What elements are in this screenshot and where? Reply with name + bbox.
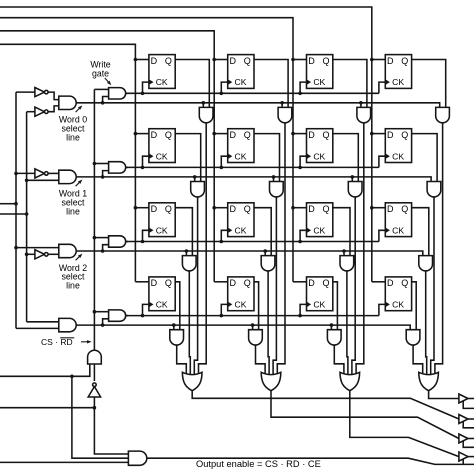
flip-flop FF22 xyxy=(228,129,254,163)
junction xyxy=(141,166,145,170)
wire W2 output xyxy=(126,166,128,168)
and gate word2 xyxy=(59,244,76,257)
wire Q output FF42 xyxy=(254,282,259,330)
svg-text:CK: CK xyxy=(313,300,325,310)
wire select to W1 xyxy=(103,97,109,103)
junction xyxy=(291,58,295,62)
wire select tap row 2 col 2 xyxy=(273,177,275,182)
and gate read R34 xyxy=(419,256,433,271)
svg-text:D: D xyxy=(229,130,236,140)
junction xyxy=(70,375,74,379)
svg-text:gate: gate xyxy=(92,68,109,78)
wire Q output FF33 xyxy=(333,208,350,256)
svg-text:D: D xyxy=(308,204,315,214)
wire D input FF32 xyxy=(214,207,228,209)
flip-flop FF33 xyxy=(307,203,333,237)
svg-text:CK: CK xyxy=(156,77,168,87)
wire select tap row 2 col 1 xyxy=(194,177,196,182)
tri-state buffer B1 xyxy=(459,394,468,403)
junction xyxy=(251,323,255,327)
label Word 1 select line xyxy=(59,189,87,217)
wire CK input FF23 xyxy=(300,156,306,167)
svg-text:CK: CK xyxy=(235,77,247,87)
junction xyxy=(291,206,295,210)
wire data input bit line to column 4 xyxy=(0,7,372,282)
wire output enable line xyxy=(147,458,474,464)
and gate read R21 xyxy=(191,182,205,197)
svg-text:D: D xyxy=(151,130,158,140)
junction xyxy=(202,101,206,105)
and gate read R33 xyxy=(340,256,354,271)
wire row 2 clock line xyxy=(126,166,379,168)
and gate read R42 xyxy=(249,330,263,345)
arrow to word 2 line xyxy=(76,254,83,261)
tri-state buffer B3 xyxy=(459,434,468,443)
junction xyxy=(298,166,302,170)
wire RD to inverter I5 xyxy=(93,397,95,408)
wire buffer B1 enable xyxy=(463,401,474,409)
svg-text:CK: CK xyxy=(313,225,325,235)
svg-text:D: D xyxy=(151,278,158,288)
and gate read R44 xyxy=(406,330,420,345)
junction xyxy=(101,175,105,179)
junction xyxy=(93,310,97,314)
wire select tap row 3 col 2 xyxy=(264,251,266,256)
junction xyxy=(14,172,18,176)
svg-text:CK: CK xyxy=(156,300,168,310)
arrow to word 0 line xyxy=(76,105,83,112)
and gate read R22 xyxy=(270,182,284,197)
wire word 0 select line xyxy=(76,103,440,108)
junction xyxy=(220,166,224,170)
junction xyxy=(212,58,216,62)
junction xyxy=(134,132,138,136)
junction xyxy=(101,101,105,105)
junction xyxy=(134,58,138,62)
wire Q output FF12 xyxy=(254,60,288,108)
flip-flop FF13 xyxy=(307,55,333,89)
flip-flop FF24 xyxy=(385,129,411,163)
wire OR3 to buffer 4 xyxy=(350,391,459,457)
and gate output-enable xyxy=(128,451,146,465)
arrow CS-RDbar xyxy=(81,340,92,343)
wire CK input FF24 xyxy=(379,156,385,167)
wire R14 output xyxy=(435,123,443,374)
junction xyxy=(185,249,189,253)
wire bus B to inverter I4 xyxy=(27,253,35,255)
wire select tap row 4 col 1 xyxy=(173,325,175,330)
svg-text:Q: Q xyxy=(244,278,251,288)
wire write-gate bus xyxy=(93,89,95,350)
junction xyxy=(193,175,197,179)
junction xyxy=(220,92,224,96)
wire select tap row 4 col 2 xyxy=(252,325,254,330)
wire OR4 to buffer 1 xyxy=(429,391,459,399)
wire W3 output xyxy=(126,241,128,243)
wire row 4 clock line xyxy=(126,315,379,317)
junction xyxy=(212,206,216,210)
svg-text:Q: Q xyxy=(322,130,329,140)
and gate write W4 xyxy=(109,310,126,321)
flip-flop FF34 xyxy=(385,203,411,237)
and gate CS-RDbar xyxy=(88,350,102,364)
junction xyxy=(93,162,97,166)
and gate write W3 xyxy=(109,236,126,247)
svg-text:Q: Q xyxy=(322,56,329,66)
and gate word0 xyxy=(59,96,76,109)
svg-text:D: D xyxy=(229,56,236,66)
or gate OR1 xyxy=(182,372,202,390)
wire R31 output xyxy=(189,271,190,374)
arrow to write gate xyxy=(105,78,112,85)
svg-text:CK: CK xyxy=(392,151,404,161)
wire D input FF12 xyxy=(214,59,228,61)
wire buffer B4 enable xyxy=(462,459,464,465)
svg-text:CK: CK xyxy=(156,225,168,235)
wire CK input FF41 xyxy=(143,304,149,315)
svg-text:CK: CK xyxy=(392,225,404,235)
junction xyxy=(298,314,302,318)
inverter I2 xyxy=(35,107,48,116)
flip-flop FF32 xyxy=(228,203,254,237)
wire I3 to word1 gate xyxy=(48,172,58,174)
and gate word3 xyxy=(59,318,76,331)
wire I2 to word0 gate xyxy=(48,106,58,112)
and gate read R43 xyxy=(327,330,341,345)
junction xyxy=(291,132,295,136)
svg-text:Q: Q xyxy=(244,56,251,66)
wire CK input FF34 xyxy=(379,230,385,241)
wire D input FF34 xyxy=(372,207,386,209)
svg-text:D: D xyxy=(387,130,394,140)
and gate read R11 xyxy=(199,107,213,122)
wire Q output FF41 xyxy=(175,282,180,330)
wire R33 output xyxy=(347,271,348,374)
svg-text:Output enable = CS · RD · CE: Output enable = CS · RD · CE xyxy=(196,459,321,469)
arrow to word 1 line xyxy=(76,180,83,187)
wire Q output FF32 xyxy=(254,208,271,256)
wire D input FF22 xyxy=(214,133,228,135)
and gate word1 xyxy=(59,170,76,183)
junction xyxy=(342,249,346,253)
and gate read R32 xyxy=(261,256,275,271)
flip-flop FF11 xyxy=(149,55,175,89)
wire I1 to word0 gate xyxy=(48,92,58,100)
wire address input B xyxy=(0,213,27,215)
svg-text:D: D xyxy=(151,56,158,66)
junction xyxy=(25,212,29,216)
or gate OR4 xyxy=(419,372,439,390)
wire word 1 select line xyxy=(76,177,431,182)
wire R34 output xyxy=(426,271,427,374)
junction xyxy=(220,240,224,244)
junction xyxy=(298,240,302,244)
wire write bus to W1 xyxy=(94,88,108,90)
wire select tap row 2 col 3 xyxy=(351,177,353,182)
svg-text:D: D xyxy=(387,278,394,288)
wire D input FF44 xyxy=(372,281,386,283)
wire RD input xyxy=(0,407,94,409)
svg-text:Q: Q xyxy=(401,56,408,66)
wire CS input xyxy=(0,364,90,376)
wire CK input FF22 xyxy=(221,156,227,167)
wire OR2 to buffer 3 xyxy=(271,391,459,439)
inverter I5 xyxy=(88,383,100,397)
svg-text:CK: CK xyxy=(156,151,168,161)
wire D input FF13 xyxy=(293,59,307,61)
or gate OR3 xyxy=(340,372,360,390)
and gate read R13 xyxy=(357,107,371,122)
svg-text:CK: CK xyxy=(235,151,247,161)
wire D input FF23 xyxy=(293,133,307,135)
wire CK input FF14 xyxy=(379,82,385,93)
wire D input FF31 xyxy=(135,207,149,209)
wire CE input xyxy=(0,461,128,463)
junction xyxy=(172,323,176,327)
wire R44 output xyxy=(413,345,423,374)
junction xyxy=(370,206,374,210)
wire CK input FF31 xyxy=(143,230,149,241)
wire bus B to inverter I2 xyxy=(27,111,35,113)
svg-text:D: D xyxy=(308,278,315,288)
wire D input FF21 xyxy=(135,133,149,135)
junction xyxy=(141,92,145,96)
flip-flop FF31 xyxy=(149,203,175,237)
svg-text:CK: CK xyxy=(313,77,325,87)
wire Q output FF31 xyxy=(175,208,192,256)
wire CK input FF32 xyxy=(221,230,227,241)
tri-state buffer B4 xyxy=(459,452,468,461)
wire data input bit line to column 3 xyxy=(0,18,293,282)
wire R13 output xyxy=(356,123,364,374)
svg-text:D: D xyxy=(229,278,236,288)
wire select to W4 xyxy=(103,319,109,325)
wire D input FF43 xyxy=(293,281,307,283)
svg-text:Q: Q xyxy=(322,204,329,214)
wire CK input FF44 xyxy=(379,304,385,315)
label CS-RDbar xyxy=(41,337,74,347)
junction xyxy=(330,323,334,327)
wire data input bit line to column 2 xyxy=(0,31,214,282)
or gate OR2 xyxy=(261,372,281,390)
junction xyxy=(93,236,97,240)
and gate read R24 xyxy=(427,182,441,197)
junction xyxy=(272,175,276,179)
wire row 3 clock line xyxy=(126,241,379,243)
junction xyxy=(370,132,374,136)
svg-text:Q: Q xyxy=(401,130,408,140)
wire D input FF41 xyxy=(135,281,149,283)
wire OR1 to buffer 2 xyxy=(192,391,459,419)
wire CK input FF12 xyxy=(221,82,227,93)
wire I4 to word2 gate xyxy=(48,253,58,255)
wire write bus to W3 xyxy=(94,237,108,239)
flip-flop FF42 xyxy=(228,277,254,311)
svg-text:Q: Q xyxy=(165,130,172,140)
wire Q output FF43 xyxy=(333,282,338,330)
inverter I4 xyxy=(35,250,48,259)
junction xyxy=(370,58,374,62)
wire buffer B4 output xyxy=(468,456,474,458)
svg-text:D: D xyxy=(387,204,394,214)
wire bus B elbow to word3 gate xyxy=(27,321,59,323)
wire Q output FF22 xyxy=(254,134,280,182)
label Write gate xyxy=(90,59,110,78)
wire D input FF11 xyxy=(135,59,149,61)
svg-text:Q: Q xyxy=(401,204,408,214)
wire select tap row 1 col 1 xyxy=(202,103,204,108)
wire CK input FF42 xyxy=(221,304,227,315)
junction xyxy=(25,179,29,183)
wire Q output FF23 xyxy=(333,134,359,182)
and gate write W1 xyxy=(109,88,126,99)
junction xyxy=(93,406,97,410)
wire CK input FF21 xyxy=(143,156,149,167)
wire Q output FF44 xyxy=(412,282,417,330)
wire select tap row 3 col 3 xyxy=(343,251,345,256)
label Word 2 select line xyxy=(59,263,87,291)
wire bus A to word2 gate xyxy=(16,247,59,249)
and gate write W2 xyxy=(109,162,126,173)
svg-text:line: line xyxy=(66,132,80,142)
wire Q output FF11 xyxy=(175,60,209,108)
wire R22 output xyxy=(273,197,276,374)
wire select to W2 xyxy=(103,171,109,177)
wire D input FF24 xyxy=(372,133,386,135)
wire buffer B3 enable xyxy=(463,441,474,448)
and gate read R12 xyxy=(278,107,292,122)
svg-text:D: D xyxy=(151,204,158,214)
wire D input FF33 xyxy=(293,207,307,209)
inverter I1 xyxy=(35,88,48,97)
svg-text:CK: CK xyxy=(235,225,247,235)
svg-text:D: D xyxy=(308,130,315,140)
flip-flop FF44 xyxy=(385,277,411,311)
svg-text:CK: CK xyxy=(235,300,247,310)
flip-flop FF21 xyxy=(149,129,175,163)
wire R43 output xyxy=(334,345,344,374)
junction xyxy=(359,101,363,105)
wire CK input FF13 xyxy=(300,82,306,93)
wire CS branch xyxy=(72,376,128,458)
flip-flop FF43 xyxy=(307,277,333,311)
svg-text:D: D xyxy=(229,204,236,214)
wire R21 output xyxy=(194,197,197,374)
svg-text:Q: Q xyxy=(165,56,172,66)
svg-text:CK: CK xyxy=(392,300,404,310)
wire address bus B xyxy=(26,112,28,322)
svg-text:D: D xyxy=(308,56,315,66)
wire Q output FF34 xyxy=(412,208,429,256)
wire W1 output xyxy=(126,92,128,94)
tri-state buffer B2 xyxy=(459,415,468,424)
label Word 0 select line xyxy=(59,115,87,143)
wire write bus to W4 xyxy=(94,311,108,313)
junction xyxy=(141,314,145,318)
wire buffer B2 enable xyxy=(463,421,474,428)
wire data input bit line to column 1 xyxy=(0,44,135,281)
svg-text:line: line xyxy=(66,281,80,291)
wire CK input FF11 xyxy=(143,82,149,93)
wire bus A elbow to word3 gate xyxy=(16,327,59,329)
wire Q output FF24 xyxy=(412,134,438,182)
flip-flop FF23 xyxy=(307,129,333,163)
wire RD branch down xyxy=(94,408,128,454)
wire select to W3 xyxy=(103,245,109,251)
wire buffer B3 output xyxy=(468,438,474,440)
junction xyxy=(25,253,29,257)
svg-text:Q: Q xyxy=(165,278,172,288)
svg-text:Q: Q xyxy=(244,204,251,214)
wire R12 output xyxy=(277,123,285,374)
wire select tap row 1 col 3 xyxy=(360,103,362,108)
wire R23 output xyxy=(352,197,355,374)
junction xyxy=(212,132,216,136)
label output enable xyxy=(196,459,321,469)
wire bus B to word1 gate xyxy=(27,179,59,181)
wire write bus to W2 xyxy=(94,163,108,165)
svg-text:Q: Q xyxy=(401,278,408,288)
svg-text:CS · RD: CS · RD xyxy=(41,337,73,347)
wire Q output FF21 xyxy=(175,134,201,182)
wire bus A to inverter I1 xyxy=(16,91,35,93)
wire D input FF14 xyxy=(372,59,386,61)
wire word 3 select line xyxy=(76,325,410,330)
svg-text:CK: CK xyxy=(313,151,325,161)
wire R11 output xyxy=(199,123,207,374)
flip-flop FF41 xyxy=(149,277,175,311)
and gate read R23 xyxy=(348,182,362,197)
junction xyxy=(220,314,224,318)
wire row 1 clock line xyxy=(126,92,379,94)
wire buffer B1 output xyxy=(468,398,474,400)
wire word 2 select line xyxy=(76,251,423,256)
junction xyxy=(134,206,138,210)
svg-text:line: line xyxy=(66,207,80,217)
svg-text:CK: CK xyxy=(392,77,404,87)
junction xyxy=(351,175,355,179)
svg-text:Q: Q xyxy=(244,130,251,140)
junction xyxy=(14,202,18,206)
svg-text:Q: Q xyxy=(322,278,329,288)
svg-text:D: D xyxy=(387,56,394,66)
wire buffer B2 output xyxy=(468,418,474,420)
svg-text:Q: Q xyxy=(165,204,172,214)
wire Q output FF14 xyxy=(412,60,446,108)
junction xyxy=(101,323,105,327)
junction xyxy=(263,249,267,253)
wire select tap row 3 col 1 xyxy=(185,251,187,256)
wire bus A to inverter I3 xyxy=(16,172,35,174)
junction xyxy=(101,249,105,253)
wire address input A xyxy=(0,203,16,205)
wire R41 output xyxy=(177,345,187,374)
and gate read R14 xyxy=(436,107,450,122)
wire R24 output xyxy=(431,197,434,374)
flip-flop FF12 xyxy=(228,55,254,89)
and gate read R31 xyxy=(182,256,196,271)
wire D input FF42 xyxy=(214,281,228,283)
wire select tap row 1 col 2 xyxy=(281,103,283,108)
junction xyxy=(298,92,302,96)
wire inverter I5 to CS-RDbar gate xyxy=(93,364,95,381)
wire address bus A xyxy=(15,92,17,328)
wire select tap row 4 col 3 xyxy=(330,325,332,330)
and gate read R41 xyxy=(170,330,184,345)
junction xyxy=(14,246,18,250)
wire W4 output xyxy=(126,315,128,317)
wire CK input FF33 xyxy=(300,230,306,241)
